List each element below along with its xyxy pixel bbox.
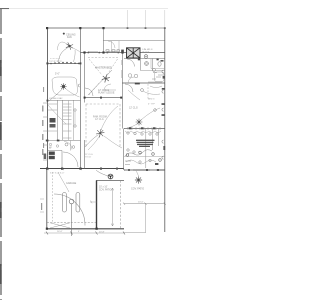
nook wavy wires <box>125 150 152 156</box>
wire F3 long diagonal <box>88 70 112 95</box>
smoke detector bed3 <box>63 33 65 35</box>
wire F1 arc left <box>58 42 67 50</box>
laundry fixture 1 <box>49 143 51 145</box>
svg-text:8' CLG: 8' CLG <box>143 52 150 54</box>
svg-text:10'-0": 10'-0" <box>138 202 144 204</box>
svg-text:LIN HALL BA2: LIN HALL BA2 <box>49 97 63 100</box>
window rear bed y=82.2 <box>148 81 162 83</box>
living curve 2 <box>88 135 100 150</box>
entry dark blob <box>121 50 124 53</box>
entry porch fixtures <box>106 50 119 52</box>
post (47,100.5) <box>47 100 49 102</box>
post (127,28) <box>127 27 129 29</box>
left dim smudge bed2 <box>43 87 44 92</box>
wall master left x=84.5 <box>84 53 86 103</box>
vanity sink 2 <box>134 74 138 78</box>
svg-text:BED 3: BED 3 <box>148 99 155 101</box>
svg-text:12' CLG: 12' CLG <box>95 118 104 121</box>
bath2 toilet <box>65 143 68 146</box>
living room curves <box>85 135 99 148</box>
post (47,63) <box>46 62 48 64</box>
patio wall double x=96.5 <box>96 181 98 229</box>
left dim text vertical smudges <box>42 106 43 156</box>
closet rod x=68.5 <box>68 101 70 141</box>
left wall dim ticks <box>43 103 48 160</box>
wall top main y=28 <box>47 27 104 29</box>
right wall mark (162,104) <box>162 103 165 105</box>
entry sidelight x=119 <box>118 41 120 52</box>
nook outlets <box>126 151 161 161</box>
wire bed3 S <box>128 90 140 100</box>
kitchen outlets row <box>127 132 158 135</box>
left page edge dark dashes <box>0 60 2 284</box>
svg-text:PLANT LEDGE: PLANT LEDGE <box>98 92 115 95</box>
top border line <box>0 8 168 10</box>
post (164,28) <box>164 27 166 29</box>
right wall dark seg kitchen <box>163 146 165 150</box>
toilet wc <box>145 62 149 66</box>
wire living to kitchen <box>104 136 122 148</box>
closet shelves <box>48 104 72 138</box>
switch row bed3 wall <box>50 62 79 65</box>
wall kitchen y=128.5 <box>124 128 165 130</box>
bed2 wires <box>143 86 162 94</box>
kitchen counter x=145.8 <box>145 129 147 168</box>
rear wall window <box>125 169 156 171</box>
wall right main x=165 <box>164 28 166 232</box>
toilet wc center <box>146 63 148 65</box>
right wall upper x=165 <box>164 10 166 28</box>
porch roof vertical x=127 <box>127 10 129 28</box>
bath2 wall x=70.5 <box>70 141 72 151</box>
post (101,97.5) <box>100 97 102 99</box>
wall bath y=83 <box>122 82 165 84</box>
hall light center <box>145 56 146 57</box>
ceiling fan F1 bed3 <box>66 42 73 49</box>
rear wall ticks <box>47 168 82 171</box>
wall rear right y=170 <box>124 169 165 171</box>
svg-text:16'-0": 16'-0" <box>57 231 63 233</box>
post (103,28) <box>102 27 104 29</box>
garage track dashed x=52.5 <box>52 172 54 222</box>
patio dim vertical x=112.5 <box>112 188 114 226</box>
hall light 1 <box>74 109 76 111</box>
nook marks left <box>125 161 131 165</box>
laundry dark appliance washer <box>49 152 55 155</box>
ceiling fan F6 patio <box>135 176 142 183</box>
wall entry x=103.5 <box>103 28 105 53</box>
bath door arc 2 <box>128 77 134 83</box>
bath wall y=140 <box>48 140 81 142</box>
vanity line <box>151 59 165 69</box>
master door arc 2 <box>104 84 116 90</box>
wall wc bottom y=70.5 <box>141 70 165 72</box>
kitchen scallops <box>125 131 161 133</box>
svg-text:GARAGE: GARAGE <box>66 182 77 185</box>
bed2 door arc right <box>125 84 133 92</box>
living curve top <box>101 106 118 130</box>
svg-text:FAN: FAN <box>67 36 72 39</box>
nook wavy 2 <box>126 160 156 164</box>
bath fixtures marks <box>152 73 164 80</box>
left page edge strip <box>0 9 2 300</box>
wall porch front y=40.5 <box>103 40 165 42</box>
svg-text:v v v v v v v: v v v v v v v <box>50 58 60 60</box>
garage door diagonal 2 <box>50 223 70 228</box>
svg-text:MASTER BED: MASTER BED <box>95 66 112 70</box>
svg-text:TO 10': TO 10' <box>85 157 92 159</box>
bed2 outline <box>52 77 78 95</box>
dim ticks right <box>123 203 166 205</box>
wall front right y=52.5 <box>80 52 165 54</box>
wall hall lower x=84.5 <box>84 140 86 169</box>
garage door dashed y=222.5 <box>47 222 96 224</box>
window marks front wall <box>88 50 117 52</box>
porch door arc <box>108 41 115 48</box>
dinette light <box>154 109 157 112</box>
svg-text:12' CLG: 12' CLG <box>129 107 138 110</box>
top border corner dark <box>0 8 9 10</box>
living dashed right x=120 <box>119 104 121 148</box>
svg-text:5'-0": 5'-0" <box>55 73 60 76</box>
wall dash dark (137,83.5) <box>135 83 140 85</box>
ceiling fan F3 master <box>102 75 110 83</box>
kitchen wall x=158.5 <box>158 129 160 146</box>
bed2 light fixture <box>141 89 144 92</box>
laundry fixture 2 <box>56 145 58 147</box>
wall bottom garage y=228.8 <box>46 228 124 230</box>
toilet <box>158 62 161 66</box>
porch roof vertical x=145 <box>145 10 147 28</box>
bath wall y=100 <box>48 100 81 102</box>
kitchen bar y=156 <box>124 156 165 158</box>
bottom wall posts <box>61 168 63 170</box>
wire F1 switch leg <box>59 47 70 62</box>
dryer vent fan motor <box>108 174 113 179</box>
closet wall x=62.5 <box>62 100 64 140</box>
post (47,28) <box>46 27 48 29</box>
hall wall x=73 <box>73 100 75 140</box>
wall top porch y=28 <box>104 27 165 29</box>
vanity sink 1 <box>128 74 132 78</box>
wall kitchen spine x=123.5 <box>123 129 125 171</box>
fluorescent fixture 1 <box>63 193 67 213</box>
bath2 sink <box>72 146 75 149</box>
water heater circle <box>69 199 74 204</box>
post (103,53) <box>102 51 104 53</box>
hall light 2 <box>74 125 76 127</box>
kitchen counter x=152.5 <box>152 129 154 150</box>
svg-text:4" TYP: 4" TYP <box>148 104 155 106</box>
dim ticks bottom <box>46 232 125 235</box>
patio right slab x=145.5 <box>145 204 147 233</box>
wall laundry y=150.5 <box>48 150 63 152</box>
garage corner blob left <box>46 228 48 230</box>
post (47,168) <box>46 167 48 169</box>
wall master right x=122.5 <box>122 53 124 129</box>
post (80,28) <box>79 27 81 29</box>
garage corner blob right <box>95 228 97 230</box>
attic hatch box <box>127 48 141 58</box>
post (122,53) <box>121 51 123 53</box>
fluorescent fixture 2 <box>76 193 80 213</box>
nook dark mark <box>155 163 158 165</box>
master window dashes right wall <box>121 60 123 78</box>
wall mark (157,59.5) <box>157 59 159 61</box>
svg-text:3'-0" 5'-4" 3'-0": 3'-0" 5'-4" 3'-0" <box>50 173 65 175</box>
living dashed top y=104 <box>86 103 120 105</box>
wire fan to right wall <box>141 108 160 120</box>
post (84,97.5) <box>84 97 86 99</box>
patio dashed right x=120.5 <box>120 181 122 229</box>
kitchen wall dark marks <box>129 127 131 129</box>
master bed room dashes <box>89 59 118 95</box>
svg-text:s g s g s g s g: s g s g s g s g <box>49 61 61 63</box>
kitchen cabinet ticks <box>128 127 160 130</box>
post (145,28) <box>145 27 147 29</box>
sink circle <box>153 69 156 72</box>
garage door swing arc <box>54 194 85 226</box>
kitchen outlets 2 <box>127 149 151 163</box>
line patio slab y=232.5 <box>124 232 146 234</box>
wall garage left x=46.8 <box>46 169 48 230</box>
laundry dark appliance dryer <box>49 156 55 159</box>
garage wire curve <box>58 172 69 192</box>
patio dim arrows <box>111 188 113 226</box>
wire F6 up <box>135 170 139 176</box>
dim line right y=203.5 <box>124 203 165 205</box>
garage left dim text <box>41 203 42 210</box>
window post marks front wall <box>88 52 90 54</box>
wire F2 right <box>66 89 80 97</box>
bath tub outline <box>155 72 165 82</box>
wall interior left y=63.5 <box>47 63 81 65</box>
svg-text:COV. PATIO: COV. PATIO <box>99 188 112 191</box>
right wall outlets <box>162 70 164 159</box>
garage door diagonal 1 <box>50 223 70 228</box>
hall panels dark <box>50 118 56 123</box>
master tray ceiling dashed top <box>88 57 118 59</box>
post (47,140.5) <box>47 140 49 142</box>
dim line bottom y=233 <box>44 232 124 234</box>
wire top right of F1 <box>73 48 81 53</box>
wall left vertical x=47.5 <box>47 28 49 169</box>
rear wall symbols <box>100 168 159 172</box>
living dashed left x=86 <box>85 104 87 148</box>
bath door arc right <box>127 59 135 67</box>
wall hall x=80.5 <box>80 28 82 169</box>
wall wc right x=152.5 <box>152 59 154 71</box>
bath2 door arc <box>64 142 72 150</box>
closet wall x=57.5 <box>57 100 59 140</box>
svg-text:10' x 10': 10' x 10' <box>99 187 108 189</box>
right wall mark (163,89) <box>162 88 165 90</box>
laundry wall dark segs <box>46 140 48 142</box>
post (80,63) <box>79 62 81 64</box>
right wall mark (162,115) <box>162 114 165 116</box>
bath dark mark <box>163 76 165 79</box>
wire F5 leg <box>125 124 137 129</box>
wall wc left x=140.5 <box>140 59 142 71</box>
wall patio top y=180.5 <box>96 180 124 182</box>
master door arc <box>85 88 93 96</box>
left dim text smudges mid <box>43 143 44 148</box>
ceiling fan F4 living <box>96 129 104 137</box>
post (121,97.5) <box>120 97 122 99</box>
wall mark (138.5,59.5) <box>138 59 140 61</box>
wire F2 down-left <box>49 89 63 102</box>
kitchen dense text block <box>136 140 155 147</box>
laundry door arc <box>63 152 78 167</box>
wire hall diagonal <box>48 105 66 124</box>
svg-text:COV. PATIO: COV. PATIO <box>131 188 144 191</box>
water heater stem x=71.5 <box>71 204 73 236</box>
wire hall lights <box>74 112 76 125</box>
hall light fixture <box>144 55 148 59</box>
wire motor to wall <box>96 170 108 176</box>
wall laundry x=62 <box>61 151 63 169</box>
svg-text:20'-8": 20'-8" <box>99 231 105 233</box>
wall master/living y=97.5 <box>84 97 122 99</box>
bed2 dashed closet x=148 <box>147 84 149 100</box>
wall rear main y=168.5 <box>40 168 124 170</box>
outlet on hall wall <box>78 84 80 87</box>
wall hall y=58.5 <box>124 58 165 60</box>
entry sidelight x=111.5 <box>111 41 113 52</box>
patio left dim tick <box>90 201 97 204</box>
ceiling fan F5 kitchen <box>136 119 143 126</box>
post (84,53) <box>83 51 85 53</box>
ceiling fan F2 bed2 <box>60 83 66 89</box>
wire into switch row right <box>74 50 76 62</box>
wall notch right <box>161 60 164 62</box>
